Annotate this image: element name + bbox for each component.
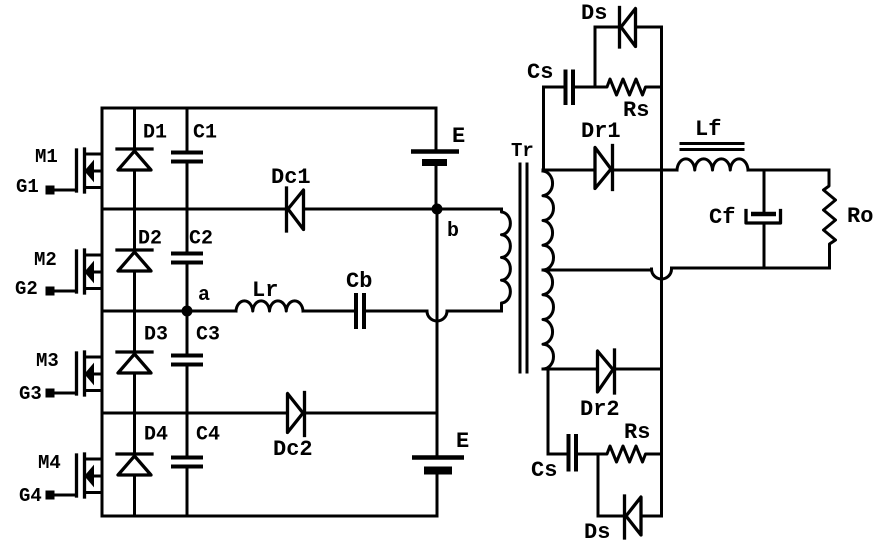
wire left bus <box>101 108 104 516</box>
resistor Ro <box>824 170 874 268</box>
svg-text:M4: M4 <box>38 452 61 474</box>
capacitor C2 <box>171 209 213 311</box>
transformer Tr primary winding <box>502 140 534 311</box>
wire snubber bottom branch <box>597 454 600 516</box>
gate terminal G4 <box>19 485 77 507</box>
diode D3 <box>117 311 168 413</box>
capacitor Cf <box>709 170 781 268</box>
gate terminal G3 <box>19 383 77 405</box>
svg-text:D2: D2 <box>138 228 162 251</box>
svg-text:C2: C2 <box>189 228 213 251</box>
wire node a rail <box>102 310 502 313</box>
wire top rail <box>102 107 436 110</box>
gate terminal G1 <box>16 176 77 198</box>
wire rail M1-M2 / clamp Dc1 net <box>102 208 435 211</box>
wire bottom rail <box>102 515 437 518</box>
transistor M3 <box>36 350 101 395</box>
diode Ds top <box>581 1 662 47</box>
inductor Lf <box>677 117 748 170</box>
svg-text:D3: D3 <box>144 324 168 347</box>
wire secondary top to snubber <box>542 87 545 170</box>
svg-text:Dr2: Dr2 <box>580 397 620 422</box>
svg-text:Lf: Lf <box>695 117 721 142</box>
inductor Lr <box>236 278 303 311</box>
gate terminal G2 <box>15 278 77 300</box>
resistor Rs top <box>595 79 662 123</box>
svg-text:Ro: Ro <box>847 204 873 229</box>
svg-text:Lr: Lr <box>252 278 278 303</box>
svg-text:C3: C3 <box>196 324 220 347</box>
transistor M2 <box>34 249 101 293</box>
svg-text:Cs: Cs <box>527 60 553 85</box>
capacitor Cb <box>346 269 372 329</box>
wire Dr1 to filter <box>614 169 678 172</box>
capacitor C1 <box>171 108 217 209</box>
svg-text:G1: G1 <box>16 176 39 198</box>
svg-text:D1: D1 <box>143 122 167 145</box>
wire center tap to load return <box>543 268 830 279</box>
svg-text:G4: G4 <box>19 485 42 507</box>
capacitor C4 <box>171 413 220 516</box>
wire Dr2 to junction <box>616 368 662 371</box>
wire secondary bottom to Dr2 <box>543 368 596 371</box>
wire secondary top to Dr1 <box>543 169 594 172</box>
svg-text:Cs: Cs <box>531 458 557 483</box>
diode Dc2 <box>273 393 313 463</box>
diode D1 <box>117 108 167 209</box>
node a <box>182 284 211 317</box>
wire center leg b down <box>436 209 439 413</box>
svg-text:Cf: Cf <box>709 205 735 230</box>
wire Lf to load <box>748 169 829 172</box>
capacitor Cs bottom <box>531 434 598 483</box>
svg-text:G2: G2 <box>15 278 38 300</box>
transformer Tr secondary winding <box>543 171 554 369</box>
wire b to primary <box>437 208 502 211</box>
battery E top <box>411 108 465 207</box>
svg-text:b: b <box>447 220 459 243</box>
wire snubber top branch <box>594 27 597 87</box>
battery E bottom <box>412 413 469 516</box>
transistor M4 <box>38 452 101 497</box>
diode Dc1 <box>271 165 311 231</box>
diode Dr1 <box>581 119 621 190</box>
svg-text:Dc2: Dc2 <box>273 437 313 462</box>
svg-text:C1: C1 <box>193 122 217 145</box>
svg-text:G3: G3 <box>19 383 42 405</box>
wire snubber bottom left leg <box>547 369 550 454</box>
svg-text:Ds: Ds <box>584 520 610 545</box>
diode D4 <box>117 413 168 516</box>
svg-text:E: E <box>452 124 465 149</box>
capacitor C3 <box>171 311 220 413</box>
svg-text:Cb: Cb <box>346 269 372 294</box>
svg-text:C4: C4 <box>196 424 220 447</box>
diode Dr2 <box>580 350 620 422</box>
svg-text:a: a <box>198 284 210 307</box>
transistor M1 <box>35 146 101 192</box>
svg-text:M1: M1 <box>35 146 58 168</box>
wire crossover hop at node a rail <box>427 311 447 321</box>
svg-text:Dr1: Dr1 <box>581 119 621 144</box>
diode D2 <box>117 209 162 311</box>
wire snubber junction leg <box>660 27 663 516</box>
svg-text:Dc1: Dc1 <box>271 165 311 190</box>
capacitor Cs top <box>527 60 595 105</box>
svg-text:Rs: Rs <box>623 98 649 123</box>
node b <box>432 204 460 244</box>
svg-text:M2: M2 <box>34 249 57 271</box>
resistor Rs bottom <box>598 420 662 462</box>
svg-text:M3: M3 <box>36 350 59 372</box>
svg-text:Tr: Tr <box>511 140 534 162</box>
svg-text:D4: D4 <box>144 424 168 447</box>
wire rail M3-M4 / clamp Dc2 net <box>102 412 437 415</box>
transformer Tr core <box>520 164 527 372</box>
svg-text:E: E <box>456 429 469 454</box>
svg-text:Ds: Ds <box>581 1 607 26</box>
diode Ds bottom <box>584 496 662 545</box>
svg-text:Rs: Rs <box>624 420 650 445</box>
